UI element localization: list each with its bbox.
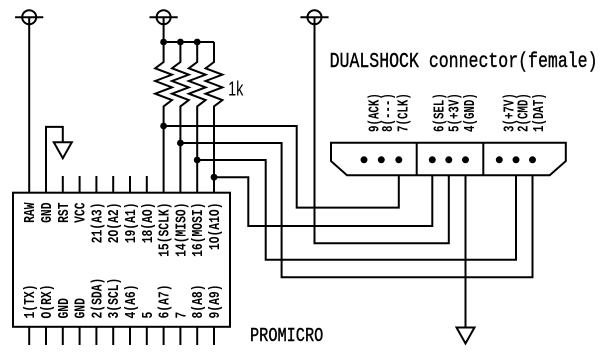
svg-text:PROMICRO: PROMICRO [250,326,323,347]
svg-text:19(A1): 19(A1) [123,203,140,244]
pin stub RST [62,176,64,193]
connector pin 7 (CLK) [395,156,402,163]
svg-text:4(GND): 4(GND) [461,93,478,132]
junction MISO [177,140,184,147]
junction bus-R2 [177,39,184,46]
wire R4/A10 to pin 10 [213,177,215,193]
svg-text:GND: GND [72,298,89,318]
svg-text:GND: GND [55,298,72,318]
bottom pin stub GND2 [79,327,81,345]
power connector P3 (right) [300,10,328,24]
svg-text:VCC: VCC [72,202,89,222]
connector pin 1 (DAT) [529,156,536,163]
svg-text:GND: GND [39,202,56,222]
svg-text:3(SCL): 3(SCL) [106,278,123,319]
resistor R3 [189,42,206,160]
pin stub 18(A0) [146,176,148,193]
connector pin 4 (GND) [462,156,469,163]
bottom pin stub 1(TX) [28,327,30,345]
svg-text:2(SDA): 2(SDA) [89,278,106,319]
connector pin 9 (ACK) [361,156,368,163]
svg-text:6(A7): 6(A7) [156,285,173,319]
resistor R4 [206,42,223,177]
svg-text:9(A9): 9(A9) [207,285,224,319]
power connector P2 (middle) [150,10,178,24]
DUALSHOCK connector J1 body [331,143,566,176]
wire R2/MISO to pin 14 [179,143,181,193]
IC PROMICRO body [13,193,230,327]
svg-text:15(SCLK): 15(SCLK) [156,203,173,257]
connector divider 2 [482,143,484,176]
wire P2 to pull-up bus [163,17,165,42]
svg-text:8(A8): 8(A8) [190,285,207,319]
wire DUALSHOCK GND to ground [465,160,467,328]
wire R3/MOSI to pin 16 [196,160,198,193]
power connector P1 (left) [15,10,43,24]
wire R1/SCLK to pin 15 [163,126,165,193]
wire GND pin to reset arrow [46,127,63,193]
resistor R2 [172,42,189,143]
resistor R1 [155,42,172,126]
svg-text:18(AO): 18(AO) [139,203,156,244]
connector pin 2 (CMD) [513,156,520,163]
svg-text:14(MISO): 14(MISO) [173,203,190,257]
wire A10 node to DUALSHOCK SEL [214,160,432,226]
connector pin 3 (+7V) [496,156,503,163]
junction MOSI [194,157,201,164]
connector divider 1 [416,143,418,176]
bottom pin stub 8(A8) [196,327,198,345]
svg-text:RST: RST [55,202,72,222]
junction SCLK [160,123,167,130]
bottom pin stub 0(RX) [45,327,47,345]
bottom pin stub 6(A7) [163,327,165,345]
wire P1 to RAW pin [28,17,30,193]
svg-text:1(TX): 1(TX) [22,285,39,319]
wire MOSI node to DUALSHOCK CMD [197,160,516,260]
wire MISO node to DUALSHOCK DAT [180,143,532,277]
wire P3 to DUALSHOCK pin 5 (+3V) [315,17,449,243]
svg-text:RAW: RAW [22,202,39,222]
svg-text:2O(A2): 2O(A2) [106,203,123,244]
bottom pin stub 3(SCL) [112,327,114,345]
connector pin 5 (+3V) [445,156,452,163]
bottom pin stub GND [62,327,64,345]
wire SCLK node to DUALSHOCK CLK [164,126,399,208]
svg-text:5: 5 [139,312,156,319]
pin stub 20(A2) [112,176,114,193]
connector pin 8 [378,156,385,163]
ground symbol [457,328,475,344]
bottom pin stub 9(A9) [213,327,215,345]
junction bus-R1 [160,39,167,46]
svg-text:21(A3): 21(A3) [89,203,106,244]
svg-text:O(RX): O(RX) [39,285,56,319]
bottom pin stub 2(SDA) [95,327,97,345]
junction A10 [211,174,218,181]
wire pull-up bus [164,41,214,43]
junction bus-R3 [194,39,201,46]
svg-text:4(A6): 4(A6) [123,285,140,319]
bottom pin stub 5 [146,327,148,345]
svg-text:7: 7 [173,312,190,319]
bottom pin stub 4(A6) [129,327,131,345]
bottom pin stub 7 [179,327,181,345]
svg-text:1(DAT): 1(DAT) [530,93,547,132]
pin stub 21(A3) [95,176,97,193]
pin stub VCC [79,176,81,193]
reset arrow symbol [54,142,72,158]
svg-text:7(CLK): 7(CLK) [395,93,412,132]
svg-text:DUALSHOCK connector(female): DUALSHOCK connector(female) [330,49,598,73]
connector pin 6 (SEL) [429,156,436,163]
svg-text:1O(A1O): 1O(A1O) [207,203,224,251]
svg-text:16(MOSI): 16(MOSI) [190,203,207,257]
svg-text:1k: 1k [228,77,244,100]
pin stub 19(A1) [129,176,131,193]
